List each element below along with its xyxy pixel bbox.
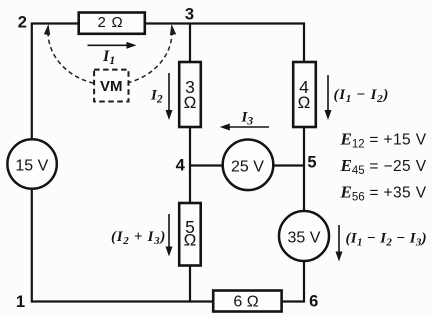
svg-text:I3: I3 bbox=[241, 110, 254, 128]
svg-text:4: 4 bbox=[176, 157, 186, 175]
svg-text:I2: I2 bbox=[150, 88, 163, 106]
svg-text:3: 3 bbox=[185, 5, 194, 23]
svg-text:6: 6 bbox=[309, 293, 318, 311]
svg-text:Ω: Ω bbox=[184, 93, 197, 112]
svg-text:1: 1 bbox=[16, 293, 25, 311]
svg-text:E45 = −25 V: E45 = −25 V bbox=[340, 156, 427, 177]
svg-text:(I2 + I3): (I2 + I3) bbox=[111, 229, 166, 247]
svg-text:Ω: Ω bbox=[184, 231, 197, 250]
svg-text:2 Ω: 2 Ω bbox=[97, 14, 123, 31]
svg-text:15 V: 15 V bbox=[15, 158, 48, 175]
svg-text:E12 = +15 V: E12 = +15 V bbox=[340, 129, 427, 150]
svg-text:VM: VM bbox=[100, 78, 123, 95]
svg-text:(I1 − I2 − I3): (I1 − I2 − I3) bbox=[346, 231, 427, 249]
svg-text:35 V: 35 V bbox=[288, 229, 321, 246]
svg-text:2: 2 bbox=[18, 13, 27, 31]
svg-text:5: 5 bbox=[307, 153, 316, 171]
svg-text:(I1 − I2): (I1 − I2) bbox=[334, 87, 390, 105]
svg-text:25 V: 25 V bbox=[231, 158, 264, 175]
svg-text:E56 = +35 V: E56 = +35 V bbox=[340, 183, 427, 204]
svg-text:6 Ω: 6 Ω bbox=[233, 294, 258, 311]
svg-text:I1: I1 bbox=[102, 48, 115, 67]
svg-text:Ω: Ω bbox=[298, 93, 311, 112]
